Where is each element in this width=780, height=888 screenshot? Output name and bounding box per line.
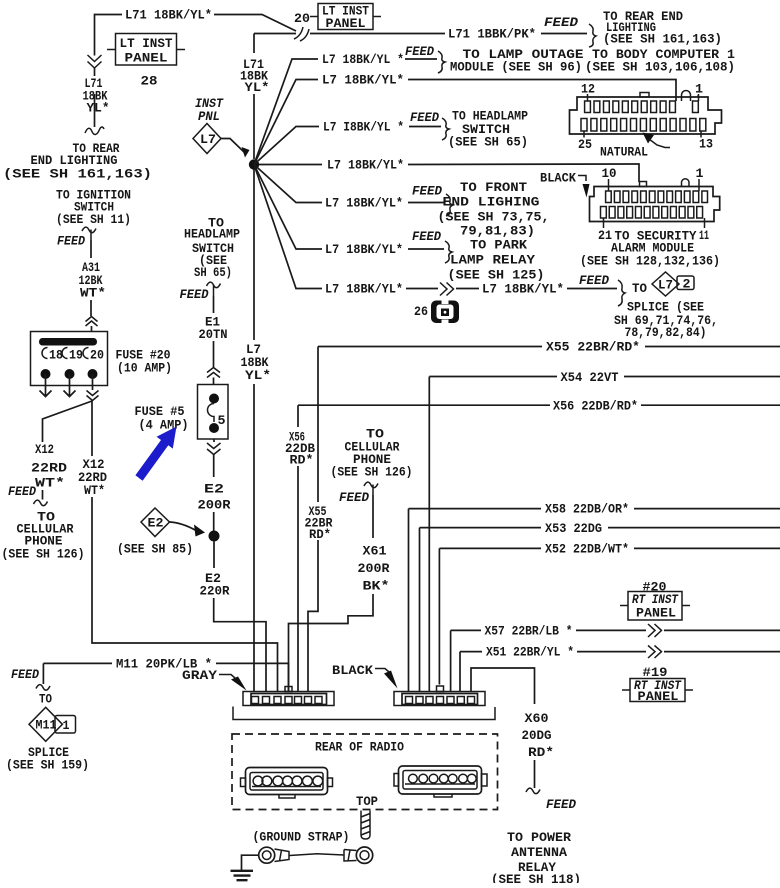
svg-text:X51 22BR/YL *: X51 22BR/YL * [486, 646, 574, 660]
svg-text:200R: 200R [198, 499, 232, 513]
svg-text:TO: TO [632, 282, 647, 296]
C2 open slot [682, 179, 690, 187]
svg-text:(SEE SH 126): (SEE SH 126) [331, 466, 413, 480]
end squiggle [85, 127, 104, 134]
svg-text:10: 10 [602, 167, 617, 181]
svg-text:PANEL: PANEL [638, 690, 679, 704]
in-line connector A31 [86, 317, 98, 327]
in-line connector chevrons L7 [440, 283, 454, 296]
wire X58 drop [408, 509, 410, 692]
svg-text:X54 22VT: X54 22VT [561, 371, 619, 385]
svg-text:X52 22DB/WT*: X52 22DB/WT* [545, 543, 629, 557]
svg-text:TO FRONT: TO FRONT [460, 181, 528, 195]
fuse element 20 [83, 348, 88, 359]
svg-text:PHONE: PHONE [25, 535, 63, 549]
radio connector left [246, 768, 328, 795]
svg-text:FUSE #20: FUSE #20 [116, 349, 171, 363]
C1 wire entry hook [682, 91, 691, 102]
radio connector right [399, 766, 482, 794]
C1 bottom row pins [581, 119, 706, 132]
C2 wire entry slot [640, 182, 647, 187]
box LT INST PANEL left [107, 49, 185, 51]
svg-text:SH 65): SH 65) [194, 266, 232, 280]
svg-text:L7 18BK/YL*: L7 18BK/YL* [325, 197, 403, 211]
svg-text:13: 13 [699, 138, 713, 152]
svg-text:FEED: FEED [544, 16, 579, 30]
bus X51 22BR/YL* [460, 651, 780, 653]
svg-text:TOP: TOP [356, 795, 378, 809]
svg-text:YL*: YL* [87, 102, 110, 116]
svg-text:NATURAL: NATURAL [600, 146, 648, 160]
svg-text:200R: 200R [358, 562, 391, 576]
svg-text:INST: INST [195, 97, 224, 111]
svg-text:FEED: FEED [11, 668, 39, 682]
connector C1 body computer (natural) [570, 97, 722, 134]
svg-text:REAR OF RADIO: REAR OF RADIO [315, 741, 404, 755]
svg-text:1: 1 [695, 83, 703, 97]
svg-text:L7 18BK/YL*: L7 18BK/YL* [482, 283, 564, 297]
svg-text:WT*: WT* [84, 484, 105, 498]
svg-text:(SEE SH 118): (SEE SH 118) [491, 873, 581, 883]
svg-text:TO: TO [366, 428, 385, 442]
bracket under connectors [233, 707, 495, 720]
bus X57 22BR/LB* [451, 629, 780, 631]
fuse element 18 [42, 348, 48, 359]
svg-text:L7 18BK/YL *: L7 18BK/YL * [322, 53, 404, 67]
svg-text:L7: L7 [658, 279, 673, 293]
wire L71 vertical above junction [254, 34, 296, 160]
wire A31 [90, 240, 92, 258]
svg-text:L7: L7 [200, 133, 216, 147]
svg-text:FEED: FEED [180, 288, 209, 302]
svg-text:(SEE SH 126): (SEE SH 126) [2, 548, 85, 562]
box LT INST PANEL top [310, 16, 381, 18]
svg-text:RD*: RD* [290, 454, 314, 468]
in-line connector below fuse 5 [213, 439, 215, 442]
node L7 splice diamond with pin 2 [677, 276, 694, 290]
svg-text:L7 18BK/YL*: L7 18BK/YL* [325, 283, 403, 297]
connector C2 security alarm (black) [590, 187, 720, 222]
svg-text:PANEL: PANEL [636, 607, 676, 621]
svg-text:79,81,83): 79,81,83) [460, 225, 535, 239]
pin 18 arrow down [40, 374, 52, 397]
wire X56 drop [297, 405, 299, 691]
dashed box rear of radio [232, 734, 498, 810]
svg-text:L7 18BK/YL*: L7 18BK/YL* [325, 243, 403, 257]
svg-text:BLACK: BLACK [540, 172, 576, 186]
svg-text:FEED: FEED [8, 485, 36, 499]
svg-text:PNL: PNL [198, 110, 220, 124]
svg-text:2: 2 [683, 278, 691, 292]
svg-text:X60: X60 [525, 712, 549, 726]
svg-text:TO: TO [39, 693, 52, 707]
wire fan L4 to security alarm connector [259, 164, 639, 182]
svg-text:(SEE SH 103,106,108): (SEE SH 103,106,108) [585, 61, 735, 75]
svg-text:BLACK: BLACK [332, 664, 374, 678]
svg-text:(SEE SH 159): (SEE SH 159) [6, 759, 89, 773]
node L7 inst panel diamond [193, 124, 221, 154]
svg-text:L71 18BK/YL*: L71 18BK/YL* [125, 9, 212, 23]
svg-text:L7 18BK/YL*: L7 18BK/YL* [327, 159, 404, 173]
svg-text:E2: E2 [204, 483, 224, 497]
svg-text:LAMP RELAY: LAMP RELAY [450, 254, 536, 268]
wire E2 220R to gray connector [213, 542, 215, 569]
svg-text:GRAY: GRAY [182, 669, 218, 683]
svg-text:(10 AMP): (10 AMP) [117, 362, 172, 376]
svg-text:(4 AMP): (4 AMP) [139, 419, 189, 433]
wire L71 top horizontal [95, 15, 297, 56]
svg-text:X12: X12 [83, 458, 105, 472]
in-line connector X12 [87, 391, 99, 401]
svg-text:(SEE SH 73,75,: (SEE SH 73,75, [438, 211, 550, 225]
svg-text:L71 1BBK/PK*: L71 1BBK/PK* [448, 28, 536, 42]
bus X54 22VT [429, 376, 780, 378]
bus X53 22DG [420, 527, 780, 529]
fuse element 19 [62, 348, 67, 359]
svg-text:PANEL: PANEL [125, 52, 168, 66]
wire X54 drop [428, 377, 430, 692]
svg-text:220R: 220R [200, 585, 230, 599]
wire X52 drop [438, 548, 440, 684]
ground wire and symbol [242, 855, 259, 870]
bus M11 20PK/LB* [43, 663, 288, 691]
svg-text:20TN: 20TN [199, 328, 228, 342]
in-line connector chevrons X57 [648, 624, 662, 637]
svg-text:18: 18 [49, 349, 63, 363]
wire fan L3 to headlamp switch [254, 127, 441, 165]
svg-text:FEED: FEED [339, 491, 369, 505]
svg-text:PANEL: PANEL [326, 17, 366, 31]
C2 top row pins [606, 191, 708, 203]
svg-text:(SEE SH 161,163): (SEE SH 161,163) [3, 168, 152, 182]
node M11 splice diamond with pin 1 [55, 716, 76, 734]
C1 top row pins [585, 96, 699, 113]
svg-text:TO POWER: TO POWER [507, 831, 572, 845]
black connector raised pin [437, 686, 444, 692]
svg-text:FEED: FEED [546, 798, 576, 812]
svg-text:L7: L7 [246, 343, 261, 357]
fuse pins dots [41, 369, 51, 379]
bolt [361, 811, 370, 840]
wire diamond to junction with arrowhead [221, 139, 245, 154]
C2 bottom row pins [601, 207, 703, 219]
brace to rear end lighting [589, 24, 596, 47]
svg-text:RT INST: RT INST [632, 593, 679, 607]
svg-text:L7 18BK/YL*: L7 18BK/YL* [322, 74, 404, 88]
svg-text:LT INST: LT INST [120, 37, 173, 51]
svg-text:FEED: FEED [410, 111, 439, 125]
svg-text:20: 20 [90, 349, 104, 363]
in-line connector E1 [207, 368, 220, 378]
wire fan L5 to front end lighting [254, 165, 445, 203]
feed marker ignition [82, 227, 96, 240]
wire fan L1 to lamp outage [254, 59, 437, 165]
bus X58 22DB/OR* [409, 508, 780, 510]
wire X61 [289, 495, 374, 692]
svg-text:RD*: RD* [309, 528, 331, 542]
wire L71 after break to right [310, 33, 587, 35]
wire L7 below junction to gray connector [253, 170, 255, 692]
svg-text:BK*: BK* [363, 580, 390, 594]
feed marker X61 [364, 482, 378, 495]
svg-text:19: 19 [69, 349, 83, 363]
svg-text:X61: X61 [363, 545, 387, 559]
junction node L7 [249, 159, 259, 169]
wire X12 branch left [43, 401, 93, 500]
wire E2 200R [213, 455, 215, 478]
svg-text:FEED: FEED [579, 274, 609, 288]
svg-text:E2: E2 [148, 517, 164, 531]
pin 19 arrow down [64, 374, 76, 397]
svg-text:X53 22DG: X53 22DG [545, 522, 602, 536]
svg-text:FEED: FEED [57, 235, 85, 249]
svg-text:YL*: YL* [245, 81, 270, 95]
svg-text:X12: X12 [35, 443, 54, 457]
wire X53 drop [419, 528, 421, 692]
svg-text:HEADLAMP: HEADLAMP [184, 228, 240, 242]
svg-text:(SEE SH 85): (SEE SH 85) [117, 543, 193, 557]
svg-text:FUSE #5: FUSE #5 [135, 405, 185, 419]
svg-text:FEED: FEED [405, 45, 434, 59]
feed marker X60 [526, 788, 540, 794]
ground strap ring terminals [259, 847, 275, 863]
svg-text:(GROUND STRAP): (GROUND STRAP) [253, 831, 350, 845]
in-line connector chevrons X51 [648, 646, 662, 659]
svg-text:X55 22BR/RD*: X55 22BR/RD* [546, 341, 640, 355]
feed marker headlamp [207, 282, 221, 296]
svg-text:(SEE SH 128,132,136): (SEE SH 128,132,136) [580, 255, 720, 269]
svg-text:END LIGHTING: END LIGHTING [31, 154, 118, 168]
wire X60 riser from black pin 7 [471, 668, 535, 788]
svg-text:26: 26 [414, 305, 428, 319]
wire X55 drop [308, 347, 318, 692]
svg-text:(SEE SH 161,163): (SEE SH 161,163) [603, 33, 722, 47]
wire E1 [213, 296, 215, 313]
wire E2 diamond to junction [170, 522, 197, 531]
svg-text:18BK: 18BK [241, 356, 269, 370]
svg-text:1: 1 [63, 719, 70, 733]
fuse block FUSE #20 [31, 332, 108, 386]
svg-text:FEED: FEED [412, 185, 442, 199]
svg-text:22RD: 22RD [78, 471, 107, 485]
wire fan L7 to splice [254, 165, 617, 289]
junction node E2 [209, 531, 220, 542]
node E2 diamond [141, 508, 170, 537]
svg-text:FEED: FEED [412, 230, 441, 244]
bus X52 22DB/WT* [439, 547, 780, 549]
svg-text:78,79,82,84): 78,79,82,84) [625, 326, 707, 340]
svg-text:TO PARK: TO PARK [470, 239, 528, 253]
connector black radio [394, 692, 485, 706]
svg-text:MODULE (SEE SH 96): MODULE (SEE SH 96) [450, 61, 582, 75]
fuse FUSE #5 [198, 385, 229, 440]
svg-text:21: 21 [598, 229, 612, 243]
svg-text:END LIGHING: END LIGHING [443, 196, 540, 210]
svg-text:SPLICE (SEE: SPLICE (SEE [627, 301, 704, 315]
svg-text:X56 22DB/RD*: X56 22DB/RD* [553, 400, 638, 414]
feed marker M11 [42, 663, 44, 684]
pin 20 wire X12 [92, 374, 94, 390]
wire X57 drop [450, 630, 452, 691]
wire to rear end lighting [94, 94, 96, 127]
svg-text:(SEE SH 65): (SEE SH 65) [448, 136, 528, 150]
svg-text:RD*: RD* [528, 746, 554, 760]
svg-text:5: 5 [218, 414, 226, 428]
gray connector raised pin [285, 687, 292, 692]
svg-text:A31: A31 [82, 261, 100, 275]
svg-text:20: 20 [294, 12, 310, 26]
svg-text:X58 22DB/OR*: X58 22DB/OR* [545, 503, 629, 517]
svg-text:ANTENNA: ANTENNA [511, 846, 568, 860]
wire fan L6 to park lamp relay [254, 165, 444, 250]
svg-text:WT*: WT* [35, 477, 65, 491]
blue arrow [135, 427, 176, 481]
wire fan L2 to body computer [254, 80, 676, 165]
svg-text:L7 I8BK/YL *: L7 I8BK/YL * [323, 121, 404, 135]
svg-text:WT*: WT* [80, 287, 106, 301]
svg-text:(SEE SH 125): (SEE SH 125) [448, 269, 545, 283]
in-line connector break 20 [294, 27, 309, 41]
svg-text:1: 1 [696, 167, 704, 181]
svg-text:28: 28 [141, 75, 158, 89]
svg-text:X57 22BR/LB *: X57 22BR/LB * [485, 625, 573, 639]
svg-text:TO HEADLAMP: TO HEADLAMP [452, 110, 528, 124]
in-line connector on L71 left drop [88, 55, 102, 68]
wire X51 drop [459, 652, 461, 692]
svg-text:20DG: 20DG [522, 729, 552, 743]
bus X55 22BR/RD* [318, 346, 780, 348]
svg-text:ALARM MODULE: ALARM MODULE [611, 242, 694, 256]
svg-text:(SEE SH 11): (SEE SH 11) [56, 213, 131, 227]
svg-text:22RD: 22RD [31, 462, 68, 476]
connector gray radio [243, 692, 334, 706]
svg-text:YL*: YL* [245, 369, 271, 383]
svg-text:11: 11 [699, 229, 709, 243]
svg-text:M11: M11 [36, 719, 57, 733]
svg-text:25: 25 [578, 138, 592, 152]
bus X56 22DB/RD* [298, 404, 780, 406]
